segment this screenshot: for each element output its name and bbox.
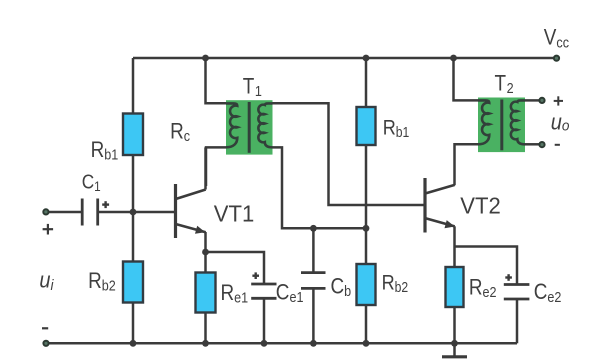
- wire bottom rail: [47, 342, 518, 345]
- capacitor Ce1: [251, 284, 276, 298]
- node bias x366: [363, 225, 370, 232]
- svg-text:T1: T1: [243, 74, 262, 99]
- node ground Re2: [451, 340, 458, 347]
- node ground Re1: [202, 340, 209, 347]
- wire base node to VT1: [133, 211, 174, 214]
- wire Vcc to T2 primary top: [454, 58, 479, 100]
- svg-text:VT1: VT1: [214, 200, 254, 227]
- terminal input top: [43, 209, 48, 214]
- wire T2 primary bottom to VT2 collector: [455, 144, 479, 185]
- svg-text:Re1: Re1: [221, 280, 249, 306]
- wire input to C1: [49, 211, 82, 214]
- resistor Re2: [446, 267, 464, 307]
- node ground Rb: [130, 340, 137, 347]
- resistor Rb1 stage1: [123, 114, 143, 156]
- label C1 polarity plus: [102, 201, 109, 208]
- T2 primary winding: [478, 100, 489, 144]
- svg-text:VT2: VT2: [460, 192, 500, 219]
- svg-text:ui: ui: [39, 268, 54, 294]
- svg-text:Rb1: Rb1: [91, 137, 119, 163]
- terminal Vcc: [554, 56, 559, 61]
- capacitor Cb: [301, 273, 326, 289]
- wire VT2 emitter to Re2: [453, 226, 456, 267]
- wire T1 secondary top to VT2 base: [273, 103, 425, 205]
- wire Cb top: [312, 228, 315, 271]
- VT1 collector lead: [177, 190, 206, 199]
- svg-text:Rb2: Rb2: [382, 271, 409, 295]
- node top rail / Rc: [202, 55, 209, 62]
- label output minus: [555, 144, 560, 146]
- VT2 collector lead: [426, 185, 455, 193]
- ground: [442, 343, 467, 357]
- node ground Ce1: [261, 340, 268, 347]
- wire C1 to base node: [99, 211, 134, 214]
- wire Ce2 bottom: [516, 299, 519, 343]
- svg-text:Rb1: Rb1: [383, 116, 410, 140]
- node ground Cb: [310, 340, 317, 347]
- wire top rail Vcc: [133, 57, 556, 60]
- terminal input bottom: [43, 341, 48, 346]
- node VT1 emitter: [202, 249, 209, 256]
- node Cb top: [310, 225, 317, 232]
- T1 primary winding: [226, 103, 237, 147]
- resistor Rb1 stage2: [357, 107, 376, 145]
- wire VT1 emitter down: [204, 232, 207, 252]
- label output plus: [554, 96, 563, 105]
- VT2 base bar: [423, 178, 426, 233]
- VT1 emitter lead: [177, 224, 206, 232]
- wire Re2 bottom: [453, 307, 456, 343]
- transformer T2: [478, 98, 525, 153]
- T2 core: [500, 100, 503, 151]
- T2 body: [478, 98, 525, 153]
- wire VT1 emitter to Re1: [204, 252, 207, 273]
- capacitor Ce2: [504, 285, 530, 300]
- wire Rc branch top: [206, 58, 227, 103]
- node VT1 base: [130, 209, 137, 216]
- label input plus: [43, 224, 54, 235]
- VT1 emitter arrow: [195, 226, 205, 234]
- node top rail / Rb1-2: [363, 55, 370, 62]
- node ground Rb2-2: [363, 340, 370, 347]
- label Ce1 polarity plus: [252, 272, 259, 279]
- wire VT2 emitter to Ce2: [455, 247, 518, 285]
- label Ce2 polarity plus: [505, 274, 512, 281]
- T1 core: [248, 102, 251, 153]
- ground stub: [453, 343, 456, 355]
- T2 secondary winding: [511, 100, 525, 144]
- transformer T1: [226, 100, 273, 154]
- wire T2 secondary top to plus terminal: [525, 99, 540, 102]
- svg-text:Ce1: Ce1: [276, 280, 304, 306]
- VT2 emitter lead: [426, 218, 455, 226]
- svg-text:C1: C1: [82, 171, 101, 194]
- transistor VT2: [425, 178, 455, 233]
- wire VT1 emitter to Ce1: [206, 252, 265, 283]
- svg-text:Cb: Cb: [331, 274, 352, 300]
- svg-text:T2: T2: [495, 71, 514, 96]
- resistor Rb2 stage1: [123, 262, 143, 303]
- capacitor C1: [82, 199, 98, 226]
- label input minus: [42, 327, 48, 329]
- svg-text:uo: uo: [551, 110, 570, 134]
- resistor Re1: [196, 273, 216, 313]
- wire Re1 bottom: [204, 312, 207, 343]
- wire Cb bottom: [312, 289, 315, 343]
- wire Ce1 bottom: [263, 298, 266, 343]
- svg-text:Rb2: Rb2: [88, 268, 116, 294]
- VT1 base bar: [174, 184, 177, 238]
- terminal output plus: [539, 98, 544, 103]
- terminal output minus: [539, 142, 544, 147]
- T1 body: [226, 100, 273, 154]
- T1 secondary winding: [258, 103, 272, 147]
- wire left bias branch x=133: [132, 58, 135, 343]
- transistor VT1: [176, 147, 206, 252]
- VT2 emitter arrow: [445, 220, 455, 228]
- wire VT1 collector up: [204, 147, 207, 189]
- node top rail / T2: [450, 55, 457, 62]
- svg-text:Vcc: Vcc: [544, 25, 569, 51]
- svg-text:Re2: Re2: [469, 275, 497, 301]
- svg-text:Ce2: Ce2: [534, 280, 562, 306]
- ground bar: [442, 355, 467, 358]
- svg-text:Rc: Rc: [170, 119, 190, 145]
- wire mid bias branch x=366: [365, 58, 368, 343]
- wire T2 secondary bottom to minus terminal: [525, 143, 540, 146]
- wire T1 primary bottom to VT1 collector: [206, 147, 226, 186]
- resistor Rb2 stage2: [357, 264, 376, 305]
- wire T1 secondary bottom to bias node: [273, 147, 367, 228]
